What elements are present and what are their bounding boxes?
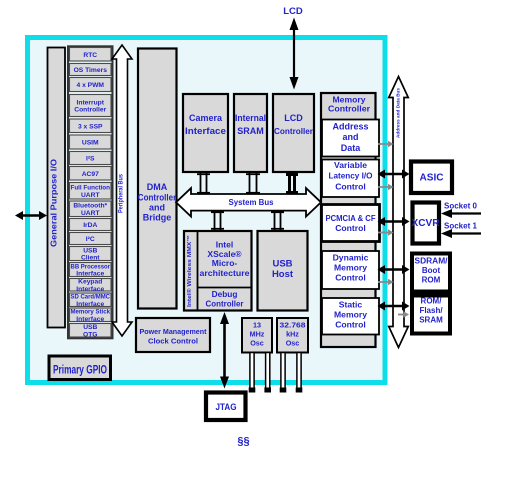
svg-text:Osc: Osc — [286, 339, 300, 348]
svg-text:13: 13 — [253, 321, 261, 330]
svg-text:Bridge: Bridge — [143, 213, 172, 223]
svg-text:Socket 0: Socket 0 — [444, 202, 477, 211]
svg-text:Internal: Internal — [235, 113, 266, 123]
svg-text:System Bus: System Bus — [229, 197, 274, 207]
svg-text:kHz: kHz — [286, 330, 299, 339]
svg-text:Micro-: Micro- — [212, 258, 238, 268]
svg-text:Controller: Controller — [138, 193, 177, 203]
svg-text:I²S: I²S — [86, 156, 95, 163]
svg-text:Camera: Camera — [189, 113, 223, 123]
svg-text:Control: Control — [335, 182, 366, 192]
svg-text:PCMCIA & CF: PCMCIA & CF — [326, 213, 376, 223]
svg-text:Host: Host — [272, 269, 294, 280]
svg-text:Client: Client — [81, 255, 100, 262]
svg-text:Full Function: Full Function — [71, 185, 111, 192]
svg-text:Controller: Controller — [74, 107, 106, 114]
svg-text:LCD: LCD — [283, 6, 303, 17]
svg-text:UART: UART — [81, 192, 100, 199]
svg-text:RTC: RTC — [83, 52, 97, 59]
svg-text:Address: Address — [332, 122, 368, 132]
svg-text:Flash/: Flash/ — [419, 306, 443, 315]
svg-text:and: and — [149, 203, 165, 213]
svg-text:USB: USB — [83, 324, 97, 331]
svg-text:Data: Data — [341, 143, 362, 153]
svg-text:Interrupt: Interrupt — [77, 99, 105, 106]
svg-text:Memory Stick: Memory Stick — [71, 309, 111, 316]
svg-text:Primary GPIO: Primary GPIO — [53, 365, 107, 377]
svg-text:4 x PWM: 4 x PWM — [77, 82, 105, 89]
svg-text:OS Timers: OS Timers — [74, 67, 108, 74]
svg-text:JTAG: JTAG — [216, 402, 237, 413]
svg-text:Interface: Interface — [76, 301, 104, 308]
svg-text:Clock Control: Clock Control — [148, 337, 198, 346]
svg-text:USB: USB — [83, 247, 97, 254]
svg-text:AC97: AC97 — [82, 171, 99, 178]
svg-text:OTG: OTG — [83, 331, 98, 338]
svg-text:USIM: USIM — [82, 140, 99, 147]
svg-text:Variable: Variable — [334, 160, 367, 170]
svg-text:Boot: Boot — [422, 266, 441, 275]
svg-text:Dynamic: Dynamic — [333, 253, 369, 263]
svg-text:SDRAM/: SDRAM/ — [415, 257, 449, 266]
svg-text:Osc: Osc — [250, 339, 264, 348]
svg-text:BB Processor: BB Processor — [71, 263, 111, 270]
svg-text:Control: Control — [335, 273, 366, 283]
svg-text:Latency I/O: Latency I/O — [329, 171, 373, 181]
svg-text:Controller: Controller — [206, 299, 245, 309]
svg-text:Intel: Intel — [216, 240, 233, 250]
svg-text:SRAM: SRAM — [419, 316, 443, 325]
svg-text:Power Management: Power Management — [140, 327, 207, 336]
svg-text:§§: §§ — [237, 436, 249, 448]
svg-text:Interface: Interface — [76, 316, 104, 323]
svg-text:Interface: Interface — [185, 126, 226, 136]
svg-text:Control: Control — [335, 320, 366, 330]
svg-text:Intel® Wireless MMX™: Intel® Wireless MMX™ — [186, 235, 193, 307]
svg-text:Address and Data Bus: Address and Data Bus — [396, 88, 402, 138]
svg-text:Interface: Interface — [76, 286, 104, 293]
svg-text:32.768: 32.768 — [280, 321, 306, 330]
svg-text:Keypad: Keypad — [78, 279, 102, 286]
svg-text:ROM/: ROM/ — [421, 297, 443, 306]
svg-text:Control: Control — [335, 223, 366, 233]
svg-text:Static: Static — [339, 300, 363, 310]
svg-text:Memory: Memory — [334, 310, 367, 320]
svg-text:LCD: LCD — [284, 113, 303, 123]
svg-text:ASIC: ASIC — [420, 173, 444, 184]
svg-text:I²C: I²C — [86, 236, 95, 243]
svg-text:DMA: DMA — [147, 182, 168, 192]
svg-text:UART: UART — [81, 210, 100, 217]
svg-text:Bluetooth*: Bluetooth* — [73, 203, 107, 210]
svg-text:IrDA: IrDA — [83, 222, 97, 229]
svg-text:Peripheral Bus: Peripheral Bus — [119, 173, 125, 213]
svg-text:Socket 1: Socket 1 — [444, 222, 477, 231]
svg-text:Controller: Controller — [274, 126, 314, 136]
svg-text:architecture: architecture — [200, 268, 250, 278]
svg-text:Controller: Controller — [328, 104, 371, 114]
svg-text:Debug: Debug — [212, 289, 238, 299]
svg-text:MHz: MHz — [250, 330, 265, 339]
svg-text:USB: USB — [272, 259, 292, 270]
svg-text:Interface: Interface — [76, 271, 104, 278]
svg-text:Memory: Memory — [334, 263, 367, 273]
svg-text:3 x SSP: 3 x SSP — [78, 123, 103, 130]
svg-text:and: and — [342, 132, 358, 142]
svg-text:ROM: ROM — [422, 276, 441, 285]
svg-text:XCVR: XCVR — [412, 218, 441, 229]
svg-text:General Purpose I/O: General Purpose I/O — [50, 159, 59, 247]
svg-text:SD Card/MMC: SD Card/MMC — [71, 294, 111, 301]
svg-text:SRAM: SRAM — [237, 126, 264, 136]
